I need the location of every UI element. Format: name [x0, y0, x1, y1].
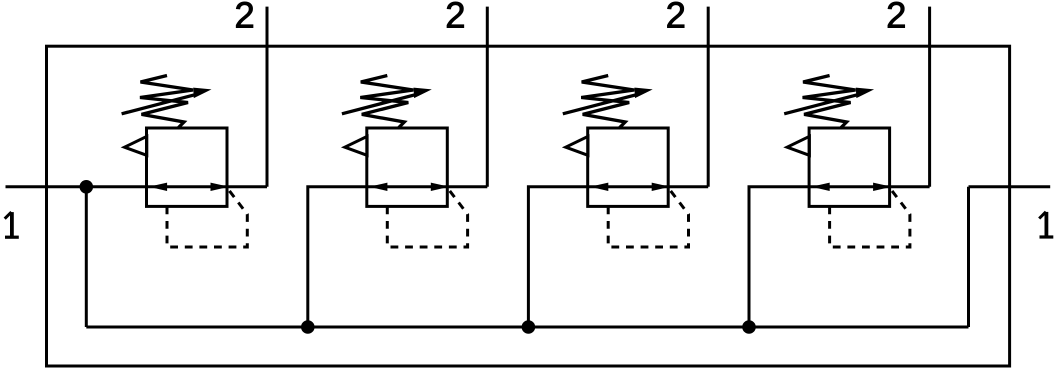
- relief vent triangle U1: [125, 136, 147, 155]
- adjustment spring U4: [803, 76, 856, 129]
- flow arrowhead right U2: [431, 183, 450, 191]
- adjustment arrow U1: [122, 94, 197, 114]
- flow path through U4: [809, 185, 890, 188]
- flow arrowhead left U4: [811, 183, 829, 191]
- adjustment spring U1: [140, 76, 193, 129]
- junction dot node at left inlet: [80, 180, 94, 194]
- flow path through U3: [588, 185, 669, 188]
- wire U1 outlet to port 2 riser: [227, 185, 267, 188]
- adjustment spring U2: [360, 76, 413, 129]
- supply riser to U2: [308, 187, 367, 327]
- adjustment arrow U3: [563, 94, 638, 114]
- pressure regulator U3 body: [588, 128, 669, 206]
- supply bus line: [86, 326, 968, 329]
- pressure regulator U2 body: [367, 128, 448, 206]
- flow arrowhead left U2: [369, 183, 387, 191]
- supply drop from inlet to bus: [85, 187, 88, 327]
- junction dot on bus at riser 4: [742, 320, 756, 334]
- pilot line (dashed) U3: [608, 188, 688, 247]
- right riser from bus: [967, 187, 970, 327]
- pilot line (dashed) U2: [387, 188, 467, 247]
- port 1 inlet line (left): [6, 185, 147, 188]
- port 2 line of U1: [266, 7, 269, 187]
- flow arrowhead right U1: [211, 183, 230, 191]
- supply riser to U3: [528, 187, 587, 327]
- wire U4 outlet to port 2 riser: [890, 185, 930, 188]
- pressure regulator U4 body: [809, 128, 890, 206]
- relief vent triangle U3: [566, 136, 588, 155]
- port 2 line of U2: [486, 7, 489, 187]
- junction dot on bus at riser 2: [301, 320, 315, 334]
- flow path through U2: [367, 185, 448, 188]
- port 2 line of U4: [928, 7, 931, 187]
- wire U2 outlet to port 2 riser: [447, 185, 487, 188]
- port label 2 (U2): [447, 2, 464, 28]
- flow path through U1: [147, 185, 228, 188]
- flow arrowhead right U4: [873, 183, 892, 191]
- adjustment arrow U4: [784, 94, 859, 114]
- flow arrowhead left U1: [149, 183, 167, 191]
- port label 1 (left): [10, 212, 14, 237]
- manifold frame: [47, 46, 1010, 366]
- port label 2 (U4): [888, 2, 905, 28]
- supply riser to U4: [749, 187, 809, 327]
- adjustment spring U3: [581, 76, 634, 129]
- port label 2 (U3): [668, 2, 685, 28]
- relief vent triangle U4: [787, 136, 809, 155]
- port 1 outlet line (right): [969, 185, 1051, 188]
- flow arrowhead left U3: [590, 183, 608, 191]
- pilot line (dashed) U1: [167, 188, 247, 247]
- flow arrowhead right U3: [652, 183, 671, 191]
- port label 1 (right): [1045, 212, 1049, 237]
- adjustment arrow U2: [342, 94, 417, 114]
- pressure regulator U1 body: [147, 128, 228, 206]
- junction dot on bus at riser 3: [522, 320, 536, 334]
- port 2 line of U3: [707, 7, 710, 187]
- wire U3 outlet to port 2 riser: [668, 185, 708, 188]
- port label 2 (U1): [236, 2, 253, 28]
- pilot line (dashed) U4: [830, 188, 910, 247]
- relief vent triangle U2: [345, 136, 367, 155]
